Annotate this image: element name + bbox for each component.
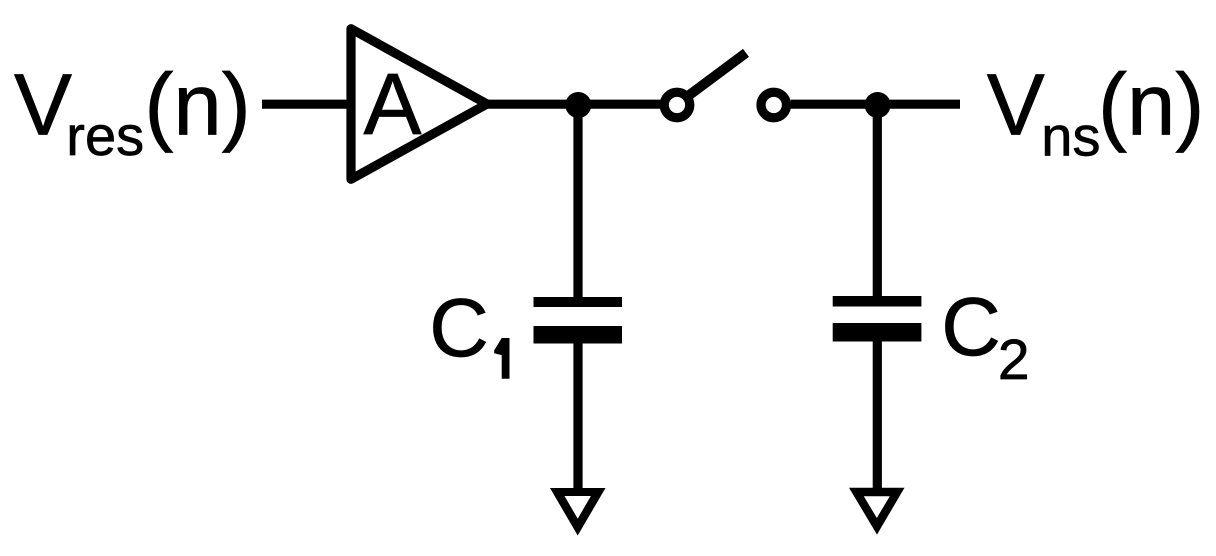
svg-text:C: C [429,282,489,374]
svg-text:ns: ns [1041,105,1100,168]
svg-text:(n): (n) [1098,57,1204,154]
svg-text:A: A [364,56,422,153]
svg-text:res: res [66,104,144,167]
svg-text:V: V [987,57,1045,154]
svg-text:2: 2 [998,328,1030,392]
svg-text:C: C [941,281,1001,373]
svg-text:(n): (n) [144,57,250,154]
svg-text:V: V [14,57,72,154]
